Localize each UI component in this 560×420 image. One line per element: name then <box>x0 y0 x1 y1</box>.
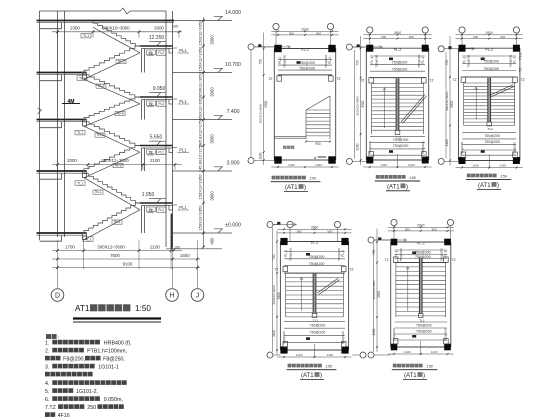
svg-text:): ) <box>406 184 408 190</box>
svg-text:2600: 2600 <box>486 31 494 35</box>
svg-text:): ) <box>423 373 425 379</box>
plan2 down mark <box>389 150 393 153</box>
svg-text:1420: 1420 <box>472 163 479 167</box>
plan4 up mark <box>306 253 310 256</box>
svg-text:750@200: 750@200 <box>310 323 326 327</box>
svg-text:3500: 3500 <box>210 134 215 144</box>
svg-text:PL-1: PL-1 <box>421 57 425 64</box>
svg-text:TL2: TL2 <box>313 318 319 322</box>
flight soffit TB-4 up <box>84 104 140 127</box>
svg-text:PL1: PL1 <box>179 99 187 104</box>
plan4 TZ columns <box>283 266 288 271</box>
floor slab f1 <box>37 170 87 172</box>
dimension row bottom 1700/3600/2100/100 <box>52 250 182 252</box>
label TL1 box <box>81 33 91 38</box>
roof level extension line to elevation marker <box>174 20 232 22</box>
notes line <box>45 372 93 377</box>
plan1 axis bubble left <box>248 158 254 164</box>
svg-text:2000: 2000 <box>67 158 77 163</box>
floor beam left bay g <box>40 240 62 242</box>
svg-text:750@200: 750@200 <box>392 60 408 64</box>
plan 1 flight diagonal <box>306 96 330 110</box>
svg-text:750: 750 <box>272 254 276 260</box>
svg-text:150X11=1650: 150X11=1650 <box>198 46 203 72</box>
svg-text:2600: 2600 <box>394 31 402 35</box>
label T2 box <box>147 101 156 106</box>
svg-text:7500: 7500 <box>110 253 120 258</box>
plan5 up mark <box>412 252 416 255</box>
plan3 title <box>467 174 497 178</box>
stair beam TL1 at floor f2 <box>83 120 87 127</box>
label PL1 with leader <box>173 98 178 100</box>
stair beam TL1 at floor f1 <box>83 171 87 178</box>
svg-text:2100: 2100 <box>150 244 160 249</box>
svg-text:TL: TL <box>149 102 153 106</box>
extension lines bottom <box>57 240 59 270</box>
plan2 bottom landing lines <box>370 136 425 138</box>
landing edge beam PL2 box <box>157 150 167 155</box>
label TB-2 box <box>113 164 123 168</box>
svg-text:PL-1: PL-1 <box>370 57 374 64</box>
svg-text:PL1: PL1 <box>179 48 187 53</box>
plan3 bottom landing lines <box>462 131 516 133</box>
section wall grid line D left edge <box>39 11 41 240</box>
svg-text:3.: 3. <box>45 365 49 371</box>
svg-text:750@200: 750@200 <box>309 262 325 266</box>
svg-text:750@200: 750@200 <box>416 330 432 334</box>
svg-text:PL-2: PL-2 <box>485 48 493 52</box>
floor beam left bay f1 <box>40 178 62 180</box>
plan2 title <box>376 175 406 179</box>
svg-text:750@200: 750@200 <box>417 54 421 67</box>
plan1 bottom dimension line <box>271 166 338 168</box>
svg-text:14.000: 14.000 <box>225 10 241 16</box>
svg-text:TB-4: TB-4 <box>116 112 123 116</box>
svg-text:1:50: 1:50 <box>309 177 316 181</box>
plan3 break diagonal <box>489 85 513 96</box>
svg-text:1:50: 1:50 <box>135 304 151 313</box>
stair beam TL1 at floor f3 <box>83 73 87 80</box>
plan 1 small dim under flight <box>306 141 330 143</box>
svg-text:750@200: 750@200 <box>393 144 409 148</box>
plan4 left dimension line <box>276 231 278 356</box>
svg-text:): ) <box>304 185 306 191</box>
flight soffit TB-4 down <box>84 79 140 104</box>
plan1 left axis line <box>250 50 252 158</box>
plan2 TZ columns <box>369 78 374 83</box>
svg-text:750@200: 750@200 <box>393 138 409 142</box>
svg-text:J: J <box>196 293 200 300</box>
plan3 up mark <box>481 58 485 61</box>
svg-text:AT1: AT1 <box>75 304 90 313</box>
svg-text:PL2: PL2 <box>158 51 164 55</box>
plan1 grid bubbles top <box>273 23 279 29</box>
plan5 down mark <box>412 335 416 338</box>
svg-text:TZ: TZ <box>452 258 456 262</box>
svg-text:1420: 1420 <box>499 163 506 167</box>
plan4 break diagonal <box>317 278 338 293</box>
svg-text:750@200: 750@200 <box>309 255 325 259</box>
svg-text:PL-1: PL-1 <box>341 250 345 257</box>
stair flight TB-3 down <box>84 120 140 146</box>
svg-text:(AT1: (AT1 <box>387 184 400 190</box>
elevation marker 3.900 <box>214 167 222 171</box>
plan 1 corridor lines <box>274 135 306 137</box>
svg-text:PL1: PL1 <box>179 148 187 153</box>
svg-text:150X11=1650: 150X11=1650 <box>198 95 203 121</box>
plan2 axis bubble left <box>346 158 352 164</box>
label TB-5 box <box>116 60 126 64</box>
svg-text:TZ: TZ <box>385 258 389 262</box>
svg-text:750@200: 750@200 <box>416 324 432 328</box>
plan5 left axis line <box>373 243 375 352</box>
plan5 top dimension lines <box>388 226 454 228</box>
svg-text:12.350: 12.350 <box>149 35 165 41</box>
svg-text:3300: 3300 <box>264 100 268 107</box>
svg-text:3300: 3300 <box>361 100 365 107</box>
plan2 middle extension to bottom dim <box>397 154 399 168</box>
svg-text:750@200: 750@200 <box>368 141 372 154</box>
plan3 bottom dimension line <box>456 167 523 169</box>
landing slab at 46.0 <box>140 45 173 47</box>
svg-text:1700: 1700 <box>65 244 75 249</box>
svg-text:PL2: PL2 <box>158 208 164 212</box>
flight soffit TB-1 up <box>84 210 140 240</box>
plan1 left dimension line <box>263 33 265 166</box>
plan1 TZ columns <box>277 76 282 81</box>
label TL1 box <box>75 130 85 135</box>
svg-text:(AT1: (AT1 <box>404 373 417 379</box>
svg-text:150X13=1950: 150X13=1950 <box>198 174 203 200</box>
stair flight TB-5 <box>84 46 140 73</box>
svg-text:1420: 1420 <box>296 353 303 357</box>
svg-text:750@200: 750@200 <box>508 54 512 67</box>
plan4 bottom TZ columns <box>283 342 288 347</box>
svg-text:9.050: 9.050 <box>153 86 166 92</box>
svg-text:1420: 1420 <box>380 163 387 167</box>
grid bubble D <box>51 289 64 302</box>
svg-text:PL-1: PL-1 <box>443 250 447 257</box>
floor beam left bay f3 <box>40 80 62 82</box>
svg-text:PL2: PL2 <box>158 102 164 106</box>
landing edge beam PL2 box <box>157 50 167 55</box>
svg-text:5.: 5. <box>45 389 49 395</box>
svg-text:750@200: 750@200 <box>484 140 500 144</box>
svg-text:900: 900 <box>289 31 294 35</box>
svg-text:7.400: 7.400 <box>227 109 240 115</box>
svg-text:HRB400 (f).: HRB400 (f). <box>104 341 132 347</box>
plan2 divider end box TL2 <box>395 131 400 135</box>
plan2 bottom dimension line <box>363 166 431 168</box>
plan3 corner columns <box>459 45 466 52</box>
svg-text:1420: 1420 <box>404 350 411 354</box>
svg-text:PL-2: PL-2 <box>417 242 425 246</box>
svg-text:TZ: TZ <box>452 78 456 82</box>
floor beam left bay f2 <box>40 127 62 129</box>
svg-text:TZ: TZ <box>336 77 340 81</box>
plan2 left axis line <box>354 50 356 158</box>
svg-text:TZ: TZ <box>429 79 433 83</box>
svg-text:750: 750 <box>372 249 376 255</box>
vertical dimension line <box>203 17 205 247</box>
plan3 axis bubble left <box>438 158 444 164</box>
svg-text:PL-2: PL-2 <box>301 48 309 52</box>
svg-text:750@200: 750@200 <box>324 55 328 68</box>
plan3 up arrow <box>475 87 477 119</box>
svg-text:2.: 2. <box>45 349 49 355</box>
plan2 up mark <box>389 58 393 61</box>
svg-text:D: D <box>55 293 60 300</box>
floor slab f3 <box>37 72 87 74</box>
plan3 down mark <box>481 150 485 153</box>
dimension row 7500/1600 <box>52 258 200 260</box>
svg-text:900: 900 <box>473 35 478 39</box>
svg-text:1100: 1100 <box>356 143 360 150</box>
floor slab f2 <box>37 119 87 121</box>
plan3 flight side edges <box>463 83 465 125</box>
svg-text:TZ: TZ <box>521 78 525 82</box>
level extension line f2 <box>173 119 233 121</box>
svg-text:PL-1: PL-1 <box>519 52 523 59</box>
svg-text:145.8X12=1750: 145.8X12=1750 <box>198 143 203 172</box>
svg-text:750@200: 750@200 <box>289 248 293 261</box>
svg-text:0.050m,: 0.050m, <box>104 397 123 403</box>
plan3 grid bubbles top <box>459 27 465 33</box>
svg-text:300X12=3600: 300X12=3600 <box>272 285 276 305</box>
svg-text:3300: 3300 <box>210 35 215 45</box>
plan2 grid bubbles top <box>367 27 373 33</box>
svg-text:1:50: 1:50 <box>409 176 416 180</box>
plan2 walls <box>365 48 367 160</box>
label PL1 with leader <box>173 147 178 149</box>
svg-text:TZ: TZ <box>274 267 278 271</box>
svg-text:2600: 2600 <box>311 225 319 229</box>
plan4 middle gap double line <box>313 274 316 314</box>
svg-text:): ) <box>497 183 499 189</box>
svg-text:2600: 2600 <box>154 26 164 31</box>
svg-text:2600: 2600 <box>301 27 309 31</box>
svg-text:9100: 9100 <box>123 261 133 266</box>
floor slab roof <box>37 20 175 22</box>
plan1 up mark <box>297 61 301 64</box>
plan4 bottom landing lines <box>284 320 345 322</box>
plan2 stair treads <box>372 83 424 85</box>
plan3 TZ columns <box>461 77 466 82</box>
svg-text:150X13=1950: 150X13=1950 <box>198 205 203 231</box>
svg-text:900: 900 <box>432 227 437 231</box>
plan4 axis bubble left <box>267 352 273 358</box>
floor slab g <box>37 232 87 234</box>
landing slab at 145.5 <box>140 145 173 147</box>
svg-text:900: 900 <box>297 229 302 233</box>
svg-text:TL: TL <box>149 51 153 55</box>
svg-text:PL-2: PL-2 <box>311 241 319 245</box>
plan4 left axis line <box>272 228 274 353</box>
svg-text:900: 900 <box>405 227 410 231</box>
plan2 flight side edges <box>371 84 373 134</box>
plan5 axis bubble left <box>368 352 374 358</box>
svg-text:750@200: 750@200 <box>399 248 403 261</box>
notes heading <box>46 334 57 339</box>
svg-text:1.950: 1.950 <box>142 192 155 198</box>
plan4 top landing lines <box>284 251 345 253</box>
svg-text:1420: 1420 <box>315 163 322 167</box>
section roof parapet top line with break <box>40 10 121 12</box>
svg-text:(AT1: (AT1 <box>285 185 298 191</box>
svg-text:1:50: 1:50 <box>500 174 507 178</box>
elevation marker 10.700 <box>214 68 222 72</box>
label T2 box <box>147 150 156 155</box>
svg-text:(AT1: (AT1 <box>478 183 491 189</box>
foundation wall dark strip <box>171 214 173 249</box>
svg-text:TL1: TL1 <box>77 131 83 135</box>
plan4 down mark <box>306 337 310 340</box>
svg-text:1G101-1: 1G101-1 <box>98 365 119 371</box>
svg-text:750: 750 <box>356 60 360 66</box>
svg-text:TL1: TL1 <box>79 76 85 80</box>
svg-text:PL-1: PL-1 <box>328 57 332 64</box>
svg-text:3300: 3300 <box>450 101 454 108</box>
svg-text:6.: 6. <box>45 397 49 403</box>
svg-text:750@200: 750@200 <box>467 54 471 67</box>
plan3 top dimension lines <box>456 34 523 36</box>
svg-text:300X12=3600: 300X12=3600 <box>445 91 449 111</box>
svg-text:(AT1: (AT1 <box>301 373 314 379</box>
stair column TZ under landing <box>141 206 143 234</box>
plan5 title <box>393 364 423 368</box>
svg-text:PL1: PL1 <box>179 205 187 210</box>
label PL1 with leader <box>173 204 178 206</box>
level extension line f1 <box>173 170 233 172</box>
section wall H pair <box>165 11 167 247</box>
plan5 up arrow <box>407 267 409 312</box>
svg-text:900: 900 <box>500 35 505 39</box>
stair flight TB-4 down <box>84 73 140 98</box>
svg-text:150X11=1650: 150X11=1650 <box>198 71 203 97</box>
svg-text:3300: 3300 <box>277 292 281 299</box>
plan2 corner columns <box>366 45 373 52</box>
plan4 grid bubbles top <box>287 221 293 227</box>
flight soffit TB-5 top <box>93 27 140 53</box>
plan1 leader arrow <box>287 45 290 48</box>
svg-text:750@200: 750@200 <box>310 330 326 334</box>
svg-text:10.700: 10.700 <box>225 62 241 68</box>
svg-text:300X12=3600: 300X12=3600 <box>356 96 360 116</box>
svg-text:5.650: 5.650 <box>150 134 163 140</box>
svg-text:900: 900 <box>409 35 414 39</box>
plan3 walls <box>458 48 460 160</box>
plan3 axis bubble left <box>438 46 444 52</box>
svg-text:750: 750 <box>445 60 449 66</box>
landing slab at 203.0 <box>140 202 173 204</box>
landing slab at 97.0 <box>140 96 173 98</box>
plan5 middle gap double line <box>419 258 422 314</box>
svg-text:PTB1.h=100mm,: PTB1.h=100mm, <box>87 349 127 355</box>
svg-text:PL-1: PL-1 <box>512 57 516 64</box>
stair column TZ under landing <box>141 49 143 73</box>
label TB-4 box <box>115 112 125 116</box>
plan5 leader arrow <box>404 238 407 241</box>
stair column TZ under landing <box>141 148 143 171</box>
stair flight TB-5 top <box>93 21 140 47</box>
svg-text:750@200: 750@200 <box>299 67 315 71</box>
svg-text:750@200: 750@200 <box>439 248 443 261</box>
svg-text:2600: 2600 <box>417 223 425 227</box>
notes line <box>45 412 55 417</box>
svg-text:900: 900 <box>316 31 321 35</box>
svg-text:TL2: TL2 <box>488 127 494 131</box>
svg-text:3.900: 3.900 <box>227 161 240 167</box>
plan4 title <box>288 364 322 368</box>
svg-text:): ) <box>320 373 322 379</box>
svg-text:750@200: 750@200 <box>415 251 431 255</box>
plan2 axis bubble left <box>346 44 352 50</box>
plan2 top dimension lines <box>363 34 431 36</box>
svg-text:900: 900 <box>381 35 386 39</box>
plan3 stair treads <box>464 82 515 84</box>
svg-text:750@200: 750@200 <box>299 61 315 65</box>
svg-text:1100: 1100 <box>372 328 376 335</box>
plan2 up arrow <box>384 88 386 128</box>
plan2 leader arrow <box>379 45 382 48</box>
svg-text:145.8X12=1750: 145.8X12=1750 <box>198 118 203 147</box>
flight soffit TB-1 down <box>84 178 140 210</box>
plan3 left axis line <box>445 52 447 159</box>
svg-text:TB-1: TB-1 <box>113 220 120 224</box>
plan1 axis bubble left <box>248 44 254 50</box>
label TB-5 box <box>96 84 106 88</box>
plan2 top landing lines <box>370 55 425 57</box>
flight soffit TB-3 up <box>84 152 140 178</box>
svg-text:1.: 1. <box>45 341 49 347</box>
label T2 box <box>147 207 156 212</box>
svg-text:TL: TL <box>149 208 153 212</box>
grid bubble J <box>191 289 204 302</box>
svg-text:300X12=3600: 300X12=3600 <box>97 244 125 249</box>
elevation marker 9.050 <box>152 93 160 97</box>
svg-text:1420: 1420 <box>431 350 438 354</box>
label TL1 box <box>75 181 85 186</box>
svg-text:250: 250 <box>87 405 96 411</box>
svg-text:PL-1: PL-1 <box>278 57 282 64</box>
svg-text:750@200: 750@200 <box>283 55 287 68</box>
svg-text:F8@200,: F8@200, <box>63 357 85 363</box>
plan3 leader arrow <box>472 47 475 50</box>
elevation marker 1.950 <box>152 199 160 203</box>
svg-text:1420: 1420 <box>326 353 333 357</box>
svg-text:PL2: PL2 <box>158 151 164 155</box>
plan4 middle extension to bottom dim <box>314 344 316 358</box>
svg-text:150X11=1650: 150X11=1650 <box>198 20 203 46</box>
level extension line g <box>173 232 233 234</box>
svg-text:3300: 3300 <box>210 87 215 97</box>
svg-text:2300: 2300 <box>70 26 80 31</box>
svg-text:750@200: 750@200 <box>483 60 499 64</box>
plan5 divider end box TL2 <box>418 314 423 318</box>
svg-text:TZ: TZ <box>519 68 523 72</box>
plan1 walls <box>273 49 275 161</box>
svg-text:±0.000: ±0.000 <box>225 223 241 229</box>
svg-text:300X12=3600: 300X12=3600 <box>259 104 263 124</box>
label TB-1 box <box>112 220 122 224</box>
svg-text:7.TZ: 7.TZ <box>45 405 57 411</box>
svg-text:300X12=3600: 300X12=3600 <box>101 158 129 163</box>
dimension row top 2300/3000/2600 <box>52 31 182 33</box>
svg-text:4.: 4. <box>45 381 49 387</box>
elevation marker 12.350 <box>152 42 160 46</box>
plan4 leader arrow <box>293 223 296 226</box>
svg-text:F8@250.: F8@250. <box>103 357 125 363</box>
